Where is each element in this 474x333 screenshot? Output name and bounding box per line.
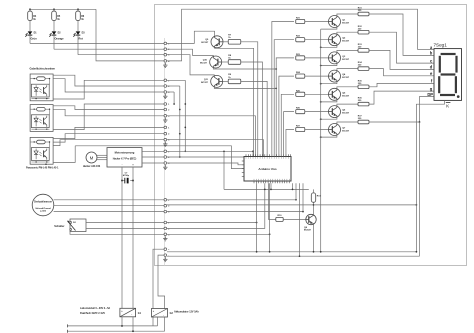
pin bottom 2 of U1 bbox=[255, 181, 257, 183]
resistor R8 1k bbox=[228, 60, 241, 65]
wire base resistor to Arduino bbox=[241, 81, 267, 156]
connector J5 pin 3 bbox=[164, 162, 167, 165]
LED D2 Orange bbox=[52, 31, 57, 35]
segment of 7Seg1 bbox=[440, 94, 455, 96]
wire J5 pin1 to Arduino bbox=[167, 151, 253, 156]
node junction emitter bus bbox=[320, 118, 322, 120]
node junction K wire on rail1 bbox=[416, 251, 418, 253]
wire emitter bus of display drivers bbox=[320, 29, 322, 252]
pin top 17 of U1 bbox=[283, 154, 285, 156]
pin left 4 of U1 bbox=[242, 171, 244, 173]
pin top 14 of U1 bbox=[276, 154, 278, 156]
wire riser from OK loop to 5V line bbox=[223, 151, 225, 189]
optocoupler block OK2 (Gabellichtschranke) bbox=[30, 105, 53, 132]
node junction Q11 emitter bbox=[275, 88, 277, 90]
pin top 9 of U1 bbox=[264, 154, 266, 156]
svg-text:BC337: BC337 bbox=[342, 131, 350, 133]
decimal point of 7Seg1 bbox=[457, 95, 460, 98]
wire Q10 emitter to common riser bbox=[213, 68, 276, 69]
svg-text:1: 1 bbox=[168, 104, 169, 106]
wire Q7 emitter to bus bbox=[321, 136, 337, 138]
node junction riser3 on rail1 bbox=[269, 251, 271, 253]
pin top 19 of U1 bbox=[287, 154, 289, 156]
node junction riser8 bbox=[302, 211, 304, 213]
resistor R36 220 bbox=[358, 102, 369, 106]
connector J1 pin 4 (+V) bbox=[164, 60, 167, 63]
svg-text:BC337: BC337 bbox=[342, 59, 350, 61]
svg-text:(+12V): (+12V) bbox=[40, 211, 46, 213]
wire J7 pin1 riser to Arduino bbox=[167, 222, 257, 224]
pin top 12 of U1 bbox=[271, 154, 273, 156]
wire OK2 pin b to connector bbox=[53, 109, 164, 116]
wire Arduino pin riser 7 to rail2 bbox=[299, 183, 301, 256]
wire controller plus down to battery G1 bbox=[132, 167, 134, 308]
node junction branch 1 bbox=[29, 8, 31, 10]
resistor R31 220 bbox=[358, 12, 369, 16]
wire Arduino pin riser 5 bbox=[292, 183, 294, 189]
resistor R35 220 bbox=[358, 85, 369, 89]
node junction trunk bbox=[179, 156, 181, 158]
wire controller out 2 to connector bbox=[142, 156, 164, 158]
svg-text:PeakTech 6225 U=12V: PeakTech 6225 U=12V bbox=[80, 312, 105, 315]
resistor R9 1k bbox=[228, 79, 241, 84]
board outline frame bbox=[155, 5, 467, 266]
pin top 10 of U1 bbox=[266, 154, 268, 156]
connector J7 pin 1 bbox=[164, 221, 167, 224]
svg-text:BC337: BC337 bbox=[342, 41, 350, 43]
node junction emitter bus bbox=[320, 46, 322, 48]
wire base resistor to transistor bbox=[305, 111, 329, 113]
node junction Q8 emitter on rail1 bbox=[313, 251, 315, 253]
node junction at Arduino top pin bbox=[252, 150, 254, 152]
node junction trunk bbox=[184, 127, 186, 129]
resistor R37 220 bbox=[358, 120, 369, 124]
connector J7 pin 2 bbox=[164, 227, 167, 230]
ground under connector J8 bbox=[164, 257, 166, 259]
wire J6 pin2 to display cathode line bbox=[167, 204, 314, 206]
segment of 7Seg1 bbox=[439, 56, 441, 73]
wire G1 minus down bbox=[121, 317, 123, 326]
wire base resistor to Arduino bbox=[241, 62, 263, 157]
svg-text:Arduino Uno: Arduino Uno bbox=[258, 167, 276, 171]
transistor Q9 BC327 bbox=[211, 36, 223, 48]
wire driver output Q7 to display pin DP bbox=[369, 97, 434, 123]
pin top 8 of U1 bbox=[261, 154, 263, 156]
svg-text:BC337: BC337 bbox=[342, 113, 350, 115]
svg-text:DP: DP bbox=[427, 92, 433, 97]
resistor R27 2k2 bbox=[296, 127, 305, 131]
wire J5 pin2 to Arduino left pin bbox=[167, 156, 244, 158]
LED D1 Gr&#252;n bbox=[28, 31, 33, 35]
pin top 4 of U1 bbox=[252, 154, 254, 156]
wire R11 top to 5V line bbox=[313, 189, 315, 193]
node junction emitter bus bbox=[320, 83, 322, 85]
resistor R21 2k2 bbox=[296, 19, 305, 23]
wire bbox=[53, 21, 55, 32]
node junction emitter bus bbox=[320, 136, 322, 138]
wire OK3 pin b to connector bbox=[53, 134, 164, 142]
motor M1 bbox=[86, 152, 97, 163]
wire driver output to display pin e bbox=[369, 69, 434, 76]
ground under connector J5 bbox=[164, 165, 166, 167]
wire OK2 pin a to connector bbox=[53, 106, 164, 110]
wire Rot cathode to connector bbox=[78, 54, 164, 56]
pin top 1 of U1 bbox=[245, 154, 247, 156]
wire base resistor to transistor bbox=[305, 57, 329, 59]
pin top 20 of U1 bbox=[290, 154, 292, 156]
pin top 5 of U1 bbox=[254, 154, 256, 156]
svg-text:-: - bbox=[122, 163, 123, 166]
transistor Q8 BC547 bbox=[306, 214, 316, 224]
wire Arduino pin riser to Q8 base bbox=[269, 183, 276, 219]
transistor Q10 BC327 bbox=[210, 56, 222, 68]
connector J6 pin 1 bbox=[164, 199, 167, 202]
wire base resistor to transistor bbox=[305, 93, 329, 95]
svg-text:K: K bbox=[446, 103, 449, 108]
wire controller out 1 to connector bbox=[142, 150, 164, 152]
wire bottom rail 1 bbox=[67, 325, 157, 327]
node junction Q8 collector bbox=[313, 204, 315, 206]
resistor R24 2k2 bbox=[296, 74, 305, 78]
node junction G1 on rail2 bbox=[132, 330, 134, 332]
svg-text:Gabellichtschranken: Gabellichtschranken bbox=[30, 67, 56, 71]
pin bottom 14 of U1 bbox=[284, 181, 286, 183]
svg-text:2: 2 bbox=[168, 110, 169, 112]
pin top 16 of U1 bbox=[280, 154, 282, 156]
wire Arduino to base resistor R27 bbox=[286, 130, 294, 157]
wire Gruen cathode to connector bbox=[30, 42, 164, 44]
wire supply rail 2 bbox=[167, 255, 420, 257]
wire J8 pin2 left to battery G2 bbox=[158, 255, 165, 308]
resistor R26 2k2 bbox=[296, 110, 305, 114]
wire Q8 emitter to rail1 bbox=[313, 224, 315, 252]
pin bottom 15 of U1 bbox=[286, 181, 288, 183]
svg-text:2: 2 bbox=[168, 206, 169, 208]
wire driver output to display pin b bbox=[369, 14, 434, 55]
svg-text:Hacker A20-16S: Hacker A20-16S bbox=[83, 165, 101, 168]
resistor R5 1k bbox=[52, 11, 57, 20]
tachometer (Drehzahlmesser) bbox=[32, 194, 54, 216]
transistor Q7 BC337 bbox=[329, 124, 341, 136]
transistor Q1 BC337 bbox=[329, 16, 341, 28]
wire controller minus down to battery G1 bbox=[121, 167, 123, 308]
wire driver output to display pin c bbox=[369, 32, 434, 63]
svg-text:BC337: BC337 bbox=[342, 95, 350, 97]
resistor R10 Q8 base bbox=[276, 217, 283, 221]
svg-text:Akkumulator 12V 5Ah: Akkumulator 12V 5Ah bbox=[174, 311, 199, 314]
wire OK1 pin a to connector bbox=[53, 75, 164, 86]
svg-text:BC337: BC337 bbox=[342, 23, 350, 25]
pin left 3 of U1 bbox=[242, 168, 244, 170]
wire base to resistor bbox=[223, 80, 229, 82]
pin bottom 6 of U1 bbox=[265, 181, 267, 183]
wire driver output to display pin g bbox=[369, 91, 434, 104]
connector J4 pin 3 bbox=[164, 138, 167, 141]
transistor Q2 BC337 bbox=[329, 34, 341, 46]
wire Arduino pin riser 4 bbox=[270, 183, 272, 189]
node junction capacitor right bbox=[132, 180, 134, 182]
wire OK1 pin b to connector bbox=[53, 79, 164, 92]
wire controller out 3 to connector bbox=[142, 162, 164, 164]
connector J2 pin 1 bbox=[164, 79, 167, 82]
node junction on rail1 bbox=[256, 251, 258, 253]
node junction rail2 riser meets Q7 line bbox=[419, 121, 421, 123]
transistor Q3 BC337 bbox=[329, 52, 341, 64]
ground under connector J7 bbox=[164, 236, 166, 238]
svg-text:7Seg1: 7Seg1 bbox=[434, 43, 448, 48]
wire J1 pin1 to Q9 collector loop bbox=[167, 31, 215, 43]
wire bbox=[77, 21, 79, 32]
pin top 15 of U1 bbox=[278, 154, 280, 156]
svg-text:BC547: BC547 bbox=[304, 229, 312, 232]
ground under connector J3 bbox=[164, 118, 166, 120]
wire base resistor to transistor bbox=[305, 129, 329, 131]
wire G2 left pin to rail1 bbox=[157, 317, 159, 326]
wire J5 pin3 to Arduino left pin bbox=[167, 163, 244, 165]
svg-text:Labornetzteil 0...30V 0...5A: Labornetzteil 0...30V 0...5A bbox=[80, 307, 110, 310]
pin bottom 11 of U1 bbox=[277, 181, 279, 183]
wire Arduino to base resistor R26 bbox=[284, 112, 294, 157]
segment of 7Seg1 bbox=[455, 76, 457, 93]
wires motor to controller bbox=[97, 154, 107, 156]
wire Q6 collector to resistor R36 bbox=[337, 104, 358, 106]
wire OK3 pin c to connector bbox=[53, 140, 164, 146]
svg-text:Hacker X-7-Pro (BEC): Hacker X-7-Pro (BEC) bbox=[113, 159, 137, 161]
wire bottom rail 2 bbox=[67, 330, 164, 332]
connector J5 pin 1 bbox=[164, 150, 167, 153]
node junction on display cathode line bbox=[416, 204, 418, 206]
wire tach out 1 bbox=[54, 199, 164, 201]
pin bottom 3 of U1 bbox=[258, 181, 260, 183]
pin top 3 of U1 bbox=[250, 154, 252, 156]
wire Arduino to base resistor R21 bbox=[272, 22, 294, 157]
connector J2 pin 3 bbox=[164, 91, 167, 94]
svg-text:BC337: BC337 bbox=[342, 77, 350, 79]
connector J8 pin 2 bbox=[164, 254, 167, 257]
svg-text:Rot: Rot bbox=[79, 37, 83, 41]
wire trunk A3 down bbox=[167, 91, 174, 93]
wire switch to connector 3 bbox=[70, 232, 164, 235]
node junction riser4 bbox=[270, 189, 272, 191]
wire Q2 emitter to bus bbox=[321, 46, 337, 48]
pin bottom 10 of U1 bbox=[274, 181, 276, 183]
node junction emitter bus bbox=[320, 65, 322, 67]
battery G1 bbox=[120, 308, 136, 317]
svg-text:4700µ: 4700µ bbox=[123, 174, 130, 177]
pin bottom 1 of U1 bbox=[253, 181, 255, 183]
wire B3 row to Arduino bbox=[167, 116, 255, 157]
pin top 18 of U1 bbox=[285, 154, 287, 156]
wire Q3 emitter to bus bbox=[321, 64, 337, 66]
wire Q5 collector to resistor R35 bbox=[337, 87, 358, 89]
wire OK2 pin c to connector bbox=[53, 104, 164, 130]
wire Q7 collector to resistor R37 bbox=[337, 122, 358, 124]
wire Arduino to base resistor R25 bbox=[281, 94, 294, 156]
wire G2 right pin to rail2 bbox=[164, 317, 166, 331]
node junction trunk bbox=[179, 109, 181, 111]
wire 5V line below Arduino bbox=[224, 188, 309, 190]
node junction on OK3 bottom edge bbox=[45, 163, 47, 165]
wire bbox=[53, 9, 55, 11]
svg-text:Orange: Orange bbox=[55, 37, 65, 41]
resistor R25 2k2 bbox=[296, 92, 305, 96]
wire +V rail to display bbox=[167, 9, 418, 61]
segment of 7Seg1 bbox=[441, 73, 456, 75]
node junction riser6 bbox=[295, 199, 297, 201]
node junction capacitor left bbox=[121, 180, 123, 182]
node junction Q10 emitter bbox=[275, 68, 277, 70]
node junction emitter bus on rail1 bbox=[320, 251, 322, 253]
wire J1 pin2 to Q10 collector loop bbox=[167, 49, 213, 56]
pin bottom 16 of U1 bbox=[288, 181, 290, 183]
LED D3 Rot bbox=[76, 31, 81, 35]
pin top 2 of U1 bbox=[247, 154, 249, 156]
wire Q1 collector to resistor R31 bbox=[337, 14, 358, 16]
wire G1 plus down bbox=[132, 317, 134, 331]
pin left 5 of U1 bbox=[242, 176, 244, 178]
pin top 7 of U1 bbox=[259, 154, 261, 156]
wire trunk A2 down bbox=[167, 85, 180, 87]
segment of 7Seg1 bbox=[455, 56, 457, 73]
wire +V bus drop to connector bbox=[96, 9, 164, 61]
transistor Q5 BC337 bbox=[329, 88, 341, 100]
wire to cathode rail bbox=[53, 35, 55, 49]
node junction branch 3 bbox=[77, 8, 79, 10]
resistor R11 pull-up (vertical) bbox=[311, 193, 315, 202]
pin bottom 8 of U1 bbox=[269, 181, 271, 183]
wire Q4 emitter to bus bbox=[321, 82, 337, 84]
switch S2 bbox=[70, 219, 86, 232]
wire Arduino pin riser 3 bbox=[269, 183, 271, 252]
segment of 7Seg1 bbox=[441, 53, 456, 55]
wire Arduino to base resistor R23 bbox=[276, 58, 294, 157]
node junction trunk bbox=[184, 150, 186, 152]
resistor R7 1k bbox=[228, 40, 241, 45]
wire OK1 pin c to connector bbox=[53, 80, 164, 99]
connector J4 pin 1 bbox=[164, 126, 167, 129]
wire OK3 loop to Arduino (long horizontal) bbox=[75, 146, 244, 169]
wire to cathode rail bbox=[29, 35, 31, 43]
node junction switch riser 3 bbox=[269, 233, 271, 235]
svg-text:Motorsteuerung: Motorsteuerung bbox=[115, 150, 135, 154]
wire J6 pin1 to Arduino riser bbox=[167, 199, 296, 201]
node junction trunk bbox=[173, 103, 175, 105]
wire J1 pin3 to Q11 collector loop bbox=[167, 55, 214, 76]
svg-text:Drehzahlmesser: Drehzahlmesser bbox=[34, 202, 52, 204]
wire Q3 collector to resistor R33 bbox=[337, 50, 358, 52]
svg-text:Grün: Grün bbox=[31, 37, 38, 41]
resistor R6 1k bbox=[76, 11, 81, 20]
optocoupler block OK3 (Gabellichtschranke) bbox=[30, 137, 53, 164]
wire base resistor to Arduino bbox=[241, 42, 258, 157]
resistor R4 1k bbox=[28, 11, 33, 20]
svg-text:BC327: BC327 bbox=[201, 82, 209, 84]
pin top 11 of U1 bbox=[269, 154, 271, 156]
connector J1 pin 2 (Orange) bbox=[164, 48, 167, 51]
svg-text:M: M bbox=[90, 155, 94, 160]
connector J3 pin 1 bbox=[164, 103, 167, 106]
node junction switch riser bbox=[256, 222, 258, 224]
wire switch to connector 2 bbox=[86, 227, 164, 229]
connector J1 pin 1 (Gruen) bbox=[164, 42, 167, 45]
wire Q5 emitter to bus bbox=[321, 100, 337, 102]
resistor R32 220 bbox=[358, 30, 369, 34]
wire Q11 emitter to common riser bbox=[214, 87, 276, 88]
pin left 2 of U1 bbox=[242, 164, 244, 166]
ground under connector J2 bbox=[164, 94, 166, 96]
wire Q2 collector to resistor R32 bbox=[337, 32, 358, 34]
wire J8 pin1 left down to supply rail bbox=[153, 249, 164, 326]
pin bottom 7 of U1 bbox=[267, 181, 269, 183]
battery G2 bbox=[152, 309, 168, 318]
node junction trunk bbox=[184, 103, 186, 105]
svg-text:Voltcraft/Conrad: Voltcraft/Conrad bbox=[35, 207, 51, 210]
wire bbox=[29, 9, 31, 11]
connector J8 pin 1 bbox=[164, 248, 167, 251]
wire Arduino pin riser 8 to tach line3 bbox=[302, 183, 304, 211]
wire tach out 2 bbox=[54, 205, 164, 207]
IC U1 Arduino Uno bbox=[244, 157, 291, 182]
transistor Q6 BC337 bbox=[329, 106, 341, 118]
node junction G1 on rail1 bbox=[121, 325, 123, 327]
wire supply rail 1 (to 7seg cathode) bbox=[167, 251, 416, 253]
wire base resistor to transistor bbox=[305, 75, 329, 77]
ground under connector J4 bbox=[164, 142, 166, 144]
segment of 7Seg1 bbox=[438, 76, 440, 93]
node junction trunk bbox=[179, 133, 181, 135]
wire switch to connector 1 bbox=[86, 222, 164, 224]
supply terminal ticks bbox=[66, 324, 68, 327]
resistor R23 2k2 bbox=[296, 56, 305, 60]
wire Q8 collector up bbox=[313, 202, 315, 215]
wire J7 pin2 riser to Arduino bbox=[167, 183, 265, 228]
transistor Q11 BC327 bbox=[211, 75, 223, 87]
node junction Schalter riser on 5V line bbox=[264, 189, 266, 191]
transistor Q4 BC337 bbox=[329, 70, 341, 82]
wire Arduino pin riser 1 bbox=[256, 183, 258, 252]
svg-text:2: 2 bbox=[168, 134, 169, 136]
wire C3 row to Arduino bbox=[167, 140, 264, 157]
pin bottom 12 of U1 bbox=[279, 181, 281, 183]
svg-text:1: 1 bbox=[168, 127, 169, 129]
motor controller U2 box bbox=[107, 148, 142, 167]
wire Arduino to base resistor R24 bbox=[279, 76, 294, 156]
connector J3 pin 2 bbox=[164, 108, 167, 111]
resistor R22 2k2 bbox=[296, 38, 305, 42]
connector J1 pin 3 (Rot) bbox=[164, 53, 167, 56]
wire base resistor to transistor bbox=[305, 39, 329, 41]
wire Q8 collector node to display cathode line bbox=[314, 204, 417, 206]
resistor R34 220 bbox=[358, 67, 369, 71]
connector J5 pin 2 bbox=[164, 156, 167, 159]
pin bottom 4 of U1 bbox=[260, 181, 262, 183]
wire bbox=[77, 9, 79, 11]
pin top 13 of U1 bbox=[273, 154, 275, 156]
connector J6 pin 2 bbox=[164, 204, 167, 207]
wire +V rail to display pin a bbox=[418, 49, 434, 51]
pin bottom 5 of U1 bbox=[262, 181, 264, 183]
connector J7 pin 3 bbox=[164, 233, 167, 236]
svg-text:BC327: BC327 bbox=[201, 42, 209, 44]
wire Arduino pin riser 6 to tach line1 bbox=[295, 183, 297, 200]
wire Q1 emitter to bus bbox=[321, 28, 337, 30]
svg-text:Panasonic PM-L45 PM-L45-1: Panasonic PM-L45 PM-L45-1 bbox=[26, 167, 59, 170]
optocoupler block OK1 (Gabellichtschranke) bbox=[30, 74, 53, 101]
node junction riser7 bbox=[299, 255, 301, 257]
wire Q9 emitter to Arduino bbox=[215, 48, 254, 157]
wire driver output to display pin d bbox=[369, 50, 434, 69]
connector J2 pin 2 bbox=[164, 85, 167, 88]
